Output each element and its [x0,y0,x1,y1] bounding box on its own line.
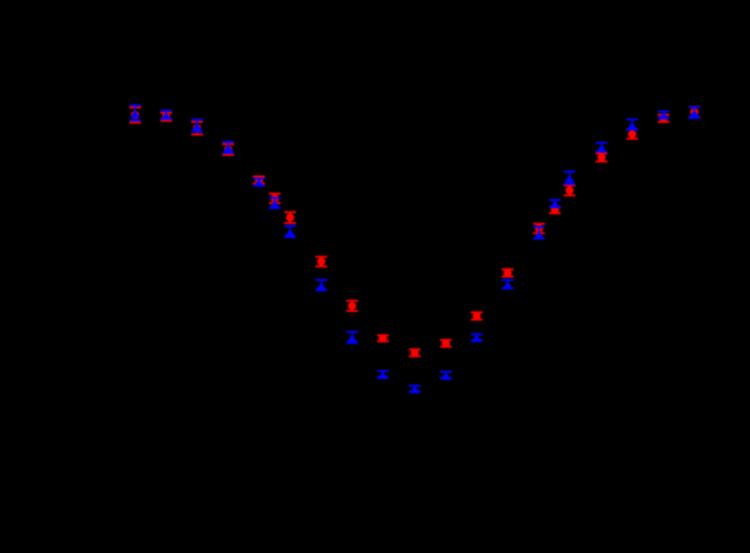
data point 15 blue triangle with error bar x=539 [533,227,545,239]
data point 19 red circle with error bar x=632.2 [626,130,638,139]
data point 12 red circle with error bar x=445.9 [440,339,452,347]
data point 11 red circle with error bar x=414.7 [409,349,421,357]
data point 6 blue triangle with error bar x=274.8 [269,198,281,208]
data point 8 blue triangle with error bar x=321.3 [315,280,327,290]
data point 14 blue triangle with error bar x=507.6 [502,280,514,289]
data point 7 red circle with error bar x=290.1 [284,212,296,223]
data point 1 red circle with error bar x=135.1 [129,107,141,122]
data point 4 blue triangle with error bar x=228.2 [222,142,234,153]
data point 8 red circle with error bar x=321.3 [315,257,327,267]
data point 17 red circle with error bar x=569.5 [564,185,576,195]
data point 3 blue triangle with error bar x=197 [191,120,203,132]
data point 2 blue triangle with error bar x=166.2 [160,111,172,120]
data point 4 red circle with error bar x=228.2 [222,144,234,155]
data point 5 blue triangle with error bar x=259 [253,179,265,187]
data point 10 blue triangle with error bar x=382.9 [377,371,389,379]
data point 9 red circle with error bar x=352.1 [346,301,358,311]
data point 20 red circle with error bar x=663.5 [658,114,670,122]
data point 3 red circle with error bar x=197 [191,122,203,135]
data point 13 blue triangle with error bar x=476.7 [471,334,483,342]
data point 5 red circle with error bar x=259 [253,176,265,184]
data point 21 red circle with error bar x=694.3 [688,107,700,117]
data point 9 blue triangle with error bar x=352.1 [346,332,358,343]
data point 18 blue triangle with error bar x=601.5 [596,143,608,152]
data point 2 red circle with error bar x=166.2 [160,113,172,121]
data point 13 red circle with error bar x=476.7 [471,312,483,320]
data point 19 blue triangle with error bar x=632.2 [626,119,638,129]
data point 11 blue triangle with error bar x=414.7 [409,386,421,394]
data point 12 blue triangle with error bar x=445.9 [440,372,452,380]
data point 14 red circle with error bar x=507.6 [502,269,514,277]
data point 21 blue triangle with error bar x=694.3 [688,107,700,118]
data point 1 blue triangle with error bar x=135.1 [129,105,141,120]
data point 10 red circle with error bar x=382.9 [377,334,389,342]
data point 7 blue triangle with error bar x=290.1 [284,226,296,237]
data point 6 red circle with error bar x=274.8 [269,194,281,203]
data point 15 red circle with error bar x=539 [533,224,545,233]
data point 16 red circle with error bar x=554.9 [549,206,561,214]
data point 16 blue triangle with error bar x=554.9 [549,200,561,208]
data point 18 red circle with error bar x=601.5 [596,153,608,161]
data point 17 blue triangle with error bar x=569.5 [564,172,576,184]
data point 20 blue triangle with error bar x=663.5 [658,112,670,120]
